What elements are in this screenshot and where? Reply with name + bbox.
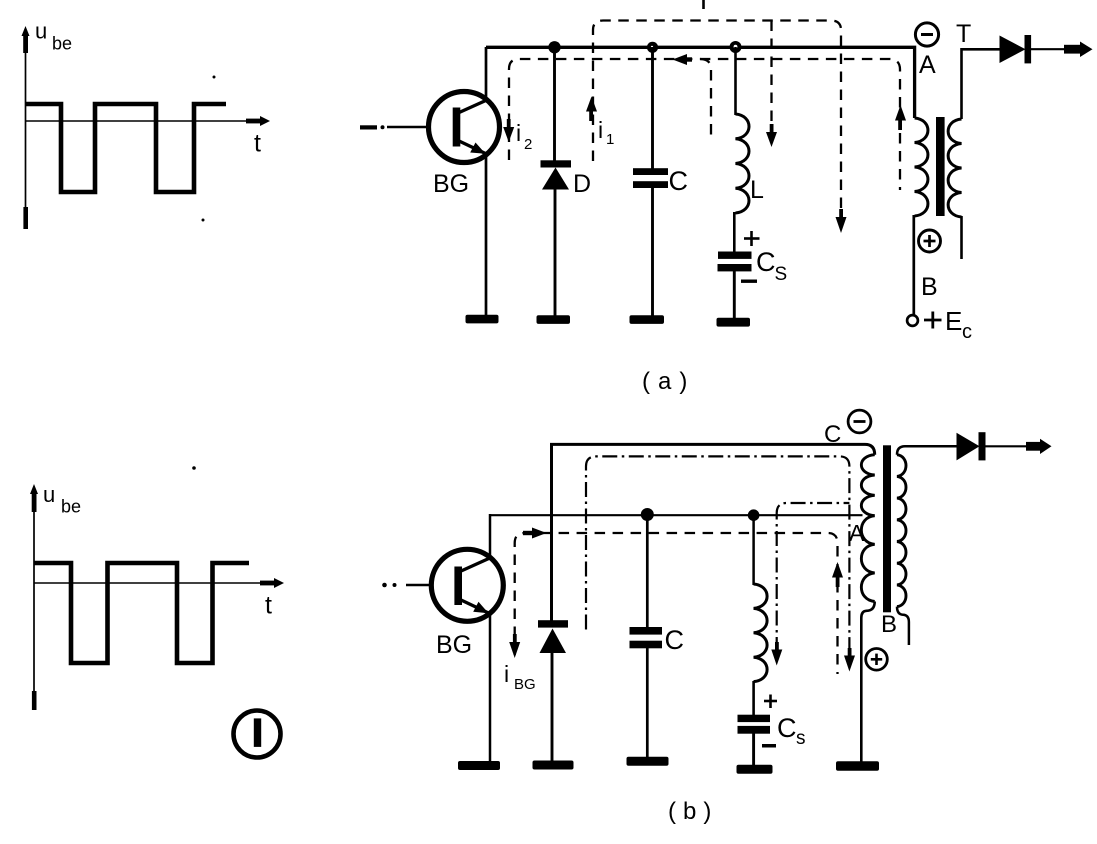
- wire collector rail (b): [490, 514, 863, 516]
- ground emitter (b): [458, 761, 500, 770]
- minus terminal circle (a): [915, 23, 938, 46]
- svg-text:(a): (a): [642, 368, 695, 395]
- graph (b) u_be axis vertical: [30, 484, 38, 710]
- wire inductor to Cs (b): [752, 681, 755, 716]
- svg-text:BG: BG: [433, 170, 469, 198]
- graph (b) speck dot: [192, 466, 196, 470]
- node junction L (a): [730, 41, 742, 53]
- graph (a) u_be axis vertical: [22, 26, 30, 229]
- terminal open circle +Ec (a): [907, 315, 918, 326]
- node junction D (a): [548, 41, 560, 53]
- wire diode branch upper (a): [553, 47, 556, 162]
- graph (b) label u_be: [43, 482, 81, 517]
- svg-text:t: t: [254, 130, 261, 158]
- capacitor C (b): [630, 627, 663, 648]
- dashed loop middle (a): [509, 59, 900, 190]
- plus sign Cs (a): [744, 231, 760, 246]
- wire inductor L branch upper (a): [734, 47, 737, 115]
- wire Cs lower (b): [752, 733, 755, 766]
- transformer secondary winding (b): [897, 455, 906, 607]
- wire diode lower (b): [551, 652, 554, 762]
- wire capacitor C branch lower (a): [651, 188, 654, 317]
- transformer T primary winding (a): [915, 118, 928, 216]
- minus sign Cs (a): [741, 280, 757, 283]
- arrow down dashdot inner (b): [771, 642, 782, 666]
- wire base lead stub (a): [360, 125, 430, 129]
- wire collector up (a): [485, 47, 488, 99]
- node junction C (b): [641, 508, 654, 521]
- svg-text:L: L: [750, 176, 764, 204]
- label Cs (b): [777, 713, 806, 749]
- node junction C (a): [647, 42, 658, 53]
- svg-text:A: A: [919, 51, 936, 79]
- ground Cs (a): [717, 318, 751, 327]
- svg-text:i: i: [504, 661, 509, 687]
- graph (b) square wave u_be: [34, 563, 249, 663]
- svg-text:C: C: [665, 625, 685, 655]
- svg-text:B: B: [921, 273, 938, 301]
- arrow up right dashed (b): [832, 562, 843, 587]
- capacitor Cs (b): [738, 715, 771, 734]
- svg-text:s: s: [796, 728, 806, 749]
- arrow down iBG (b): [509, 634, 520, 658]
- dashed stray tick top (a): [702, 0, 705, 9]
- wire primary bottom to terminal (a): [912, 215, 915, 316]
- wire secondary top to output diode (a): [962, 49, 1001, 119]
- graph (a) label u_be: [35, 19, 72, 54]
- svg-text:C: C: [756, 247, 776, 277]
- wire output with arrow (a): [1031, 42, 1093, 58]
- svg-text:E: E: [945, 306, 962, 336]
- label Cs (a): [756, 247, 787, 285]
- svg-text:c: c: [962, 321, 972, 343]
- wire Cs lower (a): [733, 270, 736, 319]
- svg-text:BG: BG: [436, 631, 472, 659]
- wire capacitor C branch upper (b): [646, 515, 649, 628]
- svg-text:C: C: [777, 713, 797, 743]
- ground capacitor C (a): [630, 315, 665, 324]
- capacitor C (a): [633, 168, 668, 188]
- wire secondary bottom stub (a): [960, 216, 963, 259]
- arrow down i2 (a): [503, 119, 514, 142]
- wire capacitor C branch lower (b): [646, 648, 649, 758]
- ground Cs (b): [737, 765, 773, 774]
- ground diode (b): [533, 761, 574, 770]
- label i1 (a): [598, 117, 614, 148]
- graph (a) square wave u_be: [26, 104, 227, 192]
- svg-text:C: C: [669, 166, 689, 196]
- wire top rail (a): [486, 47, 915, 118]
- plus sign Cs (b): [764, 695, 777, 709]
- transformer primary winding upper (b): [861, 455, 874, 516]
- svg-text:be: be: [61, 497, 81, 517]
- wire primary bottom to ground (b): [861, 602, 874, 763]
- arrow down dashdot outer (b): [844, 648, 855, 672]
- arrow left on dashed (a): [673, 54, 693, 65]
- dashed short branch vertical (a): [700, 59, 711, 137]
- arrow right on dashed iBG (b): [523, 528, 547, 539]
- wire top line to transformer (b): [552, 444, 875, 621]
- graph (b) t axis horizontal: [34, 578, 284, 588]
- ground diode D (a): [537, 315, 571, 324]
- svg-text:C: C: [824, 421, 841, 448]
- wire output with arrow (b): [986, 439, 1052, 454]
- arrow down mid dashed (a): [766, 124, 777, 147]
- transistor BG (a): [429, 92, 500, 163]
- transformer primary winding lower (b): [861, 516, 874, 602]
- arrow up i1 (a): [586, 97, 597, 122]
- graph (a) t axis horizontal: [26, 116, 271, 126]
- svg-text:T: T: [956, 20, 971, 48]
- ground transformer (b): [836, 761, 879, 770]
- ground emitter (a): [466, 315, 499, 324]
- wire inductor branch upper (b): [752, 515, 755, 585]
- minus terminal circle (b): [848, 410, 871, 433]
- dashed loop iBG (b): [515, 533, 838, 674]
- label iBG (b): [504, 661, 536, 693]
- transformer T secondary winding (a): [948, 119, 961, 217]
- svg-text:(b): (b): [668, 798, 718, 825]
- wire capacitor C branch upper (a): [651, 47, 654, 170]
- svg-text:1: 1: [606, 131, 614, 148]
- output diode (b): [957, 432, 986, 460]
- transformer core (b): [883, 445, 891, 612]
- output diode (a): [1000, 35, 1032, 63]
- svg-text:u: u: [43, 482, 55, 507]
- svg-text:B: B: [881, 611, 897, 638]
- transistor BG (b): [431, 549, 503, 621]
- svg-text:t: t: [265, 592, 272, 620]
- diode D (a): [541, 160, 572, 189]
- symbol circled I: [234, 711, 281, 758]
- label i2 (a): [516, 120, 532, 153]
- dashed vertical mid branch (a): [770, 21, 772, 129]
- label +Ec (a): [924, 306, 972, 343]
- svg-text:S: S: [775, 264, 788, 285]
- wire L to Cs (a): [733, 212, 736, 253]
- svg-text:A: A: [849, 520, 865, 546]
- wire diode branch lower (a): [554, 189, 557, 317]
- svg-text:2: 2: [524, 136, 532, 153]
- svg-text:i: i: [516, 120, 521, 146]
- dashed loop top (a): [593, 21, 841, 221]
- wire collector up (b): [489, 514, 492, 558]
- plus terminal circle (b): [866, 649, 888, 671]
- wire secondary top to diode (b): [897, 446, 957, 454]
- plus terminal circle B (a): [919, 230, 941, 252]
- arrow up transformer dashed (a): [895, 105, 906, 130]
- diode D (b): [538, 620, 568, 653]
- arrow down right dashed (a): [836, 209, 847, 233]
- dashdot loop inner (b): [777, 503, 850, 652]
- minus sign Cs (b): [762, 744, 776, 748]
- svg-text:be: be: [52, 34, 72, 54]
- capacitor Cs (a): [718, 252, 752, 272]
- transformer T core (a): [936, 117, 945, 216]
- ground capacitor C (b): [627, 757, 669, 766]
- wire secondary bottom stub (b): [897, 607, 909, 645]
- node junction L (b): [748, 509, 760, 521]
- svg-text:i: i: [598, 117, 603, 143]
- wire emitter down (a): [485, 155, 488, 318]
- dashdot loop outer (b): [586, 456, 849, 658]
- svg-text:BG: BG: [514, 676, 536, 693]
- wire emitter down (b): [489, 613, 492, 762]
- svg-text:u: u: [35, 19, 47, 44]
- svg-text:D: D: [573, 170, 591, 198]
- inductor L (a): [736, 114, 750, 213]
- inductor L (b): [754, 584, 768, 682]
- wire base lead stub (b): [382, 583, 432, 588]
- graph (a) speck dots: [202, 76, 216, 222]
